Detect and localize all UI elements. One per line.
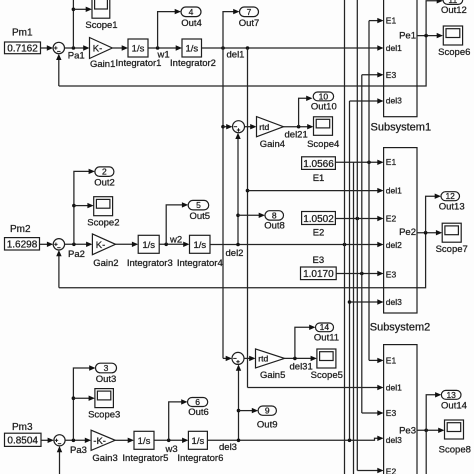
wire del2 up into del21 sum	[235, 133, 240, 245]
label Pm1	[12, 28, 33, 39]
svg-text:13: 13	[446, 390, 456, 400]
wire E2 bus vertical	[356, 0, 358, 471]
svg-text:Out12: Out12	[441, 5, 467, 16]
svg-text:E1: E1	[386, 355, 397, 365]
wire Pa3 branch up to Out3	[73, 365, 95, 440]
label w3	[165, 444, 178, 455]
wire Pe2 to Scope7	[417, 230, 442, 235]
svg-text:Integrator1: Integrator1	[116, 58, 162, 69]
label del21	[285, 130, 308, 141]
outport Out4	[181, 7, 202, 29]
outport Out7	[239, 7, 260, 29]
svg-text:E1: E1	[313, 173, 325, 184]
svg-text:E2: E2	[313, 228, 325, 239]
wire feedback Pe2 to Pa2	[56, 233, 425, 288]
wire del3 bus vertical	[349, 101, 351, 440]
node del1 tap for del21	[221, 125, 225, 129]
port label del1 of Subsystem1	[386, 43, 402, 53]
svg-text:Pm3: Pm3	[12, 422, 33, 433]
subsystem Subsystem3	[370, 345, 431, 474]
svg-text:rtd: rtd	[258, 354, 268, 364]
wire Pm3 to sum	[41, 438, 54, 443]
wire w1	[148, 45, 182, 50]
wire del1 to Subsystem3	[248, 385, 384, 390]
label w2	[169, 234, 182, 245]
wire E3 bus to Subsystem3	[362, 410, 384, 415]
svg-text:E3: E3	[386, 270, 397, 280]
svg-text:Out5: Out5	[189, 211, 210, 222]
wire E2 to Subsystem2	[335, 216, 383, 221]
node Pe2 branch	[424, 231, 428, 235]
sum junction Pa2	[53, 239, 64, 250]
integrator Integrator2	[170, 39, 216, 69]
wire to Scope2	[74, 203, 94, 208]
label del3	[219, 442, 237, 453]
wire del1 into del31 sum	[223, 356, 232, 361]
scope Scope7	[436, 223, 468, 255]
port label E1 of Subsystem3	[386, 355, 397, 365]
sum junction del21	[233, 121, 245, 133]
label del1	[227, 49, 245, 60]
port label Pe1 of Subsystem1	[399, 31, 416, 42]
node Scope1 tap	[72, 8, 76, 12]
node del3 bus tap	[348, 439, 352, 443]
port label E3 of Subsystem1	[386, 70, 397, 80]
svg-text:E3: E3	[386, 70, 397, 80]
wire feedback Pe3 to Pa3 (cut off at bottom)	[57, 446, 62, 474]
subsystem Subsystem2	[370, 148, 431, 334]
constant E2 value 1.0502	[302, 212, 336, 239]
gain Gain3	[91, 430, 118, 464]
svg-text:del1: del1	[386, 186, 402, 196]
wire E3 to Subsystem2	[336, 271, 383, 276]
wire Pm2 to sum	[40, 242, 54, 247]
integrator Integrator4	[177, 235, 223, 269]
gain Gain4 rtd	[257, 117, 286, 150]
constant Pm2 value 1.6298	[5, 238, 40, 251]
node E2 bus tap	[356, 217, 360, 221]
svg-text:Scope1: Scope1	[85, 20, 117, 31]
svg-text:E1: E1	[386, 15, 397, 25]
wire E1 bus vertical	[368, 21, 370, 361]
svg-text:Pm1: Pm1	[12, 28, 33, 39]
wire E1 bus to Subsystem1	[369, 18, 384, 23]
port label E1 of Subsystem1	[386, 15, 397, 25]
svg-text:1/s: 1/s	[192, 436, 205, 447]
wire Pa2 branch up to Out2	[74, 169, 95, 245]
wire Gain2 to Integrator3	[116, 242, 139, 247]
wire del1 to Subsystem2	[248, 188, 384, 193]
wire w3 to Out6	[169, 399, 188, 440]
node del1 branch B	[246, 46, 250, 50]
wire to Scope1	[73, 7, 92, 12]
node w2 branch	[164, 243, 168, 247]
label Pm3	[12, 422, 33, 433]
svg-text:del1: del1	[227, 49, 245, 60]
wire Pe2 to Out13	[426, 194, 441, 233]
constant Pm1 value 0.7162	[5, 42, 41, 54]
outport Out2	[94, 167, 115, 189]
svg-text:Out8: Out8	[264, 220, 285, 231]
wire Pa1 branch up to Out1 (cut off at top)	[72, 0, 74, 48]
svg-text:6: 6	[195, 397, 200, 407]
port label Pe2 of Subsystem2	[399, 227, 416, 238]
svg-text:Gain4: Gain4	[260, 139, 285, 150]
port label E2 of Subsystem2	[386, 213, 397, 223]
node del2 bus tap	[343, 243, 347, 247]
svg-text:Scope7: Scope7	[436, 244, 468, 255]
outport Out8	[264, 210, 285, 231]
wire Pe1 to Scope6	[417, 33, 443, 38]
scope Scope4	[307, 117, 339, 150]
wire feedback Pe1 to Pa1	[56, 36, 426, 86]
node del1 to Subsystem2	[246, 189, 250, 193]
label Pa3	[70, 445, 87, 456]
node w3 branch	[167, 439, 171, 443]
wire Pe1 to Out12	[426, 0, 443, 36]
wire Pm1 to sum	[41, 45, 54, 50]
integrator Integrator6	[177, 431, 223, 464]
wire w2 to Out5	[166, 202, 188, 244]
svg-text:Integrator2: Integrator2	[170, 58, 216, 69]
wire E2 bus to Subsystem3	[357, 468, 383, 473]
svg-text:Out9: Out9	[257, 420, 278, 431]
svg-text:Integrator5: Integrator5	[122, 453, 168, 464]
svg-text:del21: del21	[285, 130, 308, 141]
svg-text:Pa3: Pa3	[70, 445, 87, 456]
wire del3 bus to Subsystem2	[350, 299, 384, 304]
gain Gain1	[90, 38, 116, 71]
svg-text:0.8504: 0.8504	[7, 436, 38, 447]
svg-text:del3: del3	[386, 297, 402, 307]
wire bus vertical	[353, 162, 355, 474]
node Pa2 branch	[72, 243, 76, 247]
scope Scope3	[88, 389, 120, 421]
outport Out14	[441, 390, 467, 412]
svg-text:Scope4: Scope4	[307, 139, 339, 150]
node Pe1 branch	[424, 34, 428, 38]
svg-text:E3: E3	[312, 255, 324, 266]
outport Out3	[96, 363, 117, 385]
svg-text:Out7: Out7	[239, 18, 260, 29]
wire w2	[159, 242, 189, 247]
integrator Integrator1	[116, 39, 162, 69]
svg-text:Pm2: Pm2	[10, 224, 31, 235]
svg-text:1/s: 1/s	[138, 436, 151, 447]
wire E1 to Subsystem2	[335, 160, 383, 165]
svg-text:1/s: 1/s	[193, 240, 206, 251]
svg-text:7: 7	[247, 7, 252, 17]
port label E3 of Subsystem2	[386, 270, 397, 280]
constant Pm3 value 0.8504	[5, 433, 42, 447]
svg-text:del3: del3	[386, 435, 402, 445]
svg-text:K-: K-	[93, 44, 103, 55]
outport Out9	[257, 406, 278, 431]
svg-text:del1: del1	[386, 382, 402, 392]
wire del1 to Subsystem1	[202, 45, 384, 50]
svg-text:Out11: Out11	[314, 332, 339, 343]
wire del1 branch A down	[222, 48, 224, 358]
svg-text:5: 5	[196, 200, 201, 210]
wire del21 sum to Gain4	[245, 124, 257, 129]
wire Pe3 to Out14	[426, 392, 441, 430]
wire del31 to Scope5	[285, 356, 317, 361]
wire del3 to Subsystem3	[207, 436, 383, 441]
node del21 branch	[297, 125, 301, 129]
svg-text:Out6: Out6	[188, 407, 209, 418]
integrator Integrator5	[122, 431, 168, 464]
svg-text:del3: del3	[219, 442, 237, 453]
node Scope2 tap	[72, 204, 76, 208]
node del2 tap for del21 branch	[236, 243, 240, 247]
wire del21 to Scope4	[284, 124, 314, 129]
svg-text:Scope5: Scope5	[311, 370, 343, 381]
wire del31 to Out11	[295, 325, 316, 359]
svg-text:del31: del31	[290, 361, 313, 372]
node del2 tap for Out8	[236, 214, 240, 218]
svg-text:10: 10	[319, 91, 329, 101]
svg-text:1/s: 1/s	[132, 44, 145, 55]
svg-text:1.0170: 1.0170	[303, 269, 334, 280]
wire w3	[154, 438, 188, 443]
svg-text:del1: del1	[386, 43, 402, 53]
svg-text:Integrator6: Integrator6	[177, 453, 223, 464]
wire Pa3 to Gain3	[65, 438, 91, 443]
constant E1 value 1.0566	[302, 157, 336, 184]
svg-text:2: 2	[102, 167, 107, 177]
port label Pe3 of Subsystem3	[399, 426, 416, 437]
svg-text:Pe1: Pe1	[399, 31, 416, 42]
wire Pa1 to Gain1	[65, 45, 90, 50]
gain Gain5 rtd	[256, 349, 286, 381]
subsystem Subsystem1	[371, 0, 432, 134]
wire Pa2 to Gain2	[65, 242, 93, 247]
node Pa1 branch	[72, 46, 76, 50]
port label del1 of Subsystem2	[386, 186, 402, 196]
wire del31 sum to Gain5	[244, 356, 256, 361]
node E1 bus tap	[367, 161, 371, 165]
gain Gain2	[92, 234, 118, 269]
wire Gain3 to Integrator5	[115, 438, 134, 443]
integrator Integrator3	[127, 235, 173, 269]
svg-text:w3: w3	[165, 444, 178, 455]
node Pe3 branch	[424, 429, 428, 433]
wire Gain1 to Integrator1	[112, 45, 128, 50]
svg-text:Pa1: Pa1	[68, 51, 85, 62]
sum junction del31	[232, 352, 244, 364]
node del3 bus to Subsystem2	[348, 300, 352, 304]
svg-text:8: 8	[272, 210, 277, 220]
svg-text:4: 4	[189, 7, 194, 17]
svg-text:w2: w2	[169, 234, 182, 245]
sum junction Pa1	[53, 42, 64, 53]
svg-text:Scope6: Scope6	[438, 47, 470, 58]
outport Out10	[311, 91, 337, 112]
svg-text:Subsystem2: Subsystem2	[370, 322, 431, 334]
outport Out13	[439, 191, 465, 212]
scope Scope1	[85, 0, 117, 31]
node E3 bus tap	[360, 272, 364, 276]
svg-text:Pe3: Pe3	[399, 426, 416, 437]
svg-text:Out10: Out10	[311, 101, 337, 112]
svg-text:w1: w1	[157, 49, 170, 60]
wire w1 to Out4	[158, 9, 181, 48]
port label E2 of Subsystem3	[386, 467, 397, 474]
wire Pe3 to Scope8	[417, 428, 445, 433]
scope Scope8	[439, 420, 471, 455]
port label del3 of Subsystem3	[386, 435, 402, 445]
svg-text:Out4: Out4	[181, 18, 202, 29]
wire del2 to Out8	[238, 213, 265, 218]
label Pa1	[68, 51, 85, 62]
outport Out5	[188, 200, 210, 222]
svg-text:Gain3: Gain3	[92, 453, 117, 464]
node del3 tap for Out9	[237, 409, 241, 413]
svg-text:Gain1: Gain1	[90, 59, 115, 70]
svg-text:3: 3	[104, 363, 109, 373]
svg-text:Scope3: Scope3	[88, 409, 120, 420]
svg-text:Integrator3: Integrator3	[127, 258, 173, 269]
svg-text:Integrator4: Integrator4	[177, 258, 223, 269]
outport Out11	[314, 322, 339, 343]
svg-text:rtd: rtd	[259, 122, 269, 132]
svg-text:del2: del2	[386, 240, 402, 250]
svg-text:E2: E2	[386, 213, 397, 223]
svg-text:14: 14	[320, 322, 330, 332]
svg-text:1.6298: 1.6298	[7, 240, 38, 251]
node Pa3 branch	[72, 439, 76, 443]
wire del3 to Out9	[239, 408, 259, 413]
scope Scope5	[311, 349, 343, 381]
svg-text:E2: E2	[386, 467, 397, 474]
port label E1 of Subsystem2	[386, 157, 397, 167]
wire del1 to Out7	[223, 9, 240, 48]
svg-text:1.0566: 1.0566	[303, 159, 334, 170]
port label del1 of Subsystem3	[386, 382, 402, 392]
svg-text:0.7162: 0.7162	[7, 43, 38, 54]
sum junction Pa3	[54, 435, 65, 446]
constant E3 value 1.0170	[301, 255, 337, 280]
port label del3 of Subsystem1	[386, 95, 402, 105]
svg-text:del3: del3	[386, 95, 402, 105]
node del1 branch A	[221, 46, 225, 50]
svg-text:Out3: Out3	[96, 374, 117, 385]
svg-text:Scope2: Scope2	[87, 218, 119, 229]
scope Scope6	[438, 26, 470, 58]
label Pm2	[10, 224, 31, 235]
outport Out12 (cut off at top)	[441, 0, 467, 16]
port label del2 of Subsystem2	[386, 240, 402, 250]
wire del3 up into del31 sum	[236, 364, 241, 440]
svg-text:1/s: 1/s	[142, 240, 155, 251]
wire del2 to Subsystem2	[210, 242, 384, 247]
wire E3 bus vertical	[361, 75, 363, 413]
svg-text:1/s: 1/s	[185, 44, 198, 55]
label Pa2	[68, 249, 85, 260]
svg-text:Pe2: Pe2	[399, 227, 416, 238]
scope Scope2	[87, 197, 119, 229]
svg-text:1.0502: 1.0502	[303, 214, 334, 225]
node Scope3 tap	[72, 396, 76, 400]
svg-text:Out14: Out14	[441, 401, 467, 412]
wire Pe3 feedback down (cut off at bottom)	[425, 430, 427, 474]
svg-text:Out2: Out2	[94, 177, 115, 188]
svg-text:Gain5: Gain5	[260, 370, 285, 381]
wire del2 bus vertical	[344, 0, 346, 474]
svg-text:E3: E3	[386, 408, 397, 418]
svg-text:Out13: Out13	[439, 201, 465, 212]
label del2	[226, 248, 244, 259]
svg-text:Gain2: Gain2	[93, 258, 118, 269]
wire del1 into del21 sum	[223, 124, 233, 129]
svg-text:Pa2: Pa2	[68, 249, 85, 260]
svg-text:E1: E1	[386, 157, 397, 167]
node del3 tap for del31 branch	[237, 439, 241, 443]
svg-text:12: 12	[445, 191, 455, 201]
port label E3 of Subsystem3	[386, 408, 397, 418]
node w1 branch	[156, 46, 160, 50]
wire del3 bus to Subsystem1	[350, 98, 384, 103]
svg-text:del2: del2	[226, 248, 244, 259]
port label del3 of Subsystem2	[386, 297, 402, 307]
svg-text:9: 9	[265, 406, 270, 416]
wire del21 to Out10	[299, 96, 313, 127]
wire to Scope3	[73, 396, 95, 401]
svg-text:Scope8: Scope8	[439, 444, 471, 455]
label w1	[157, 49, 170, 60]
outport Out6	[188, 397, 209, 418]
svg-text:-K-: -K-	[93, 436, 106, 447]
label del31	[290, 361, 313, 372]
svg-text:Subsystem1: Subsystem1	[371, 122, 432, 134]
wire del1 branch B down	[247, 48, 249, 388]
wire E3 bus to Subsystem1	[362, 72, 384, 77]
wire E1 bus to Subsystem3	[369, 358, 384, 363]
node del31 branch	[293, 357, 297, 361]
svg-text:K-: K-	[96, 240, 106, 251]
